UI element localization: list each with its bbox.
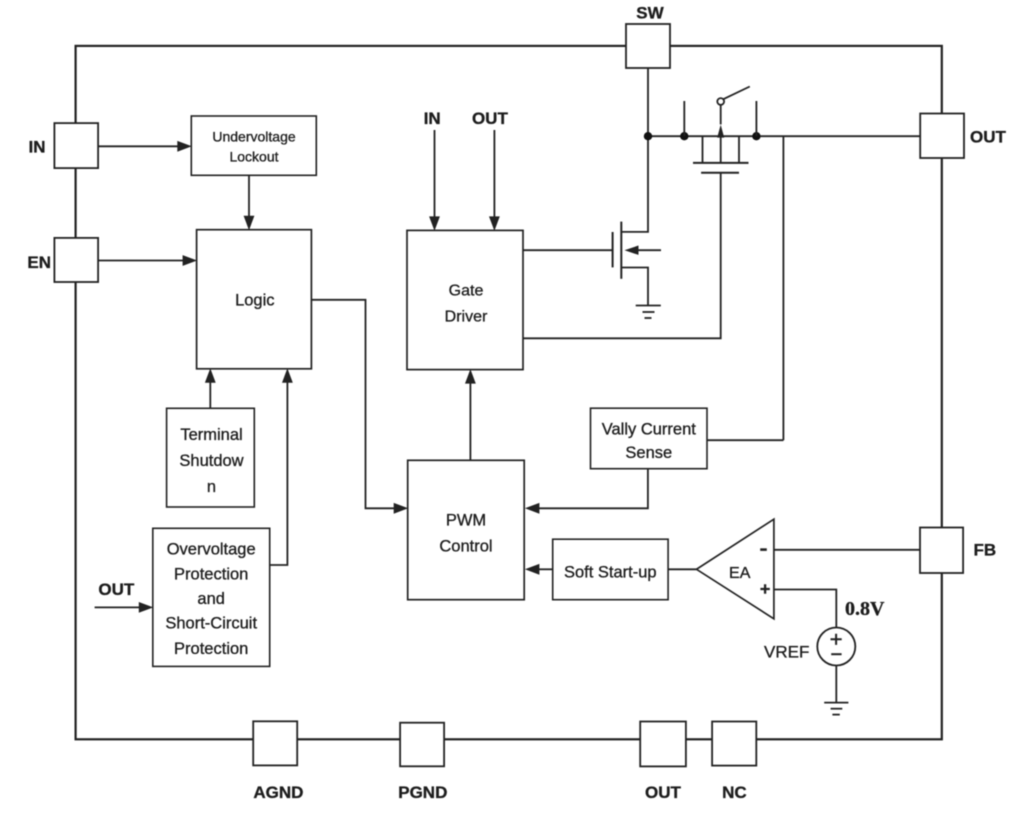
pin OUT top-right — [920, 114, 964, 159]
wire PWM Control to Gate Driver — [469, 382, 471, 460]
pin IN — [54, 123, 98, 168]
wire IN into Gate Driver — [434, 130, 436, 218]
transistor Q1 channel bar — [620, 222, 622, 279]
transistor Q2 right terminal — [738, 136, 740, 163]
arrowhead into Logic left — [183, 255, 198, 266]
svg-text:Control: Control — [439, 537, 492, 555]
pin EN — [54, 238, 98, 282]
svg-text:Shutdow: Shutdow — [179, 452, 243, 470]
block Soft Start-up — [553, 539, 668, 600]
wire FB to EA inverting input — [774, 549, 920, 551]
junction dot SW node — [644, 132, 652, 140]
junction dot right of high-side MOSFET — [752, 132, 760, 140]
svg-text:Lockout: Lockout — [229, 148, 278, 164]
svg-text:and: and — [197, 590, 225, 608]
svg-text:Short-Circuit: Short-Circuit — [165, 615, 257, 633]
block PWM Control — [408, 460, 525, 599]
svg-text:Sense: Sense — [625, 444, 672, 462]
pin OUT bottom — [640, 722, 686, 767]
svg-text:Logic: Logic — [235, 292, 274, 310]
wire OUT into Overvoltage Protection — [95, 606, 140, 608]
svg-text:OUT: OUT — [645, 783, 682, 802]
arrowhead into Logic bottom from Overvoltage Protection — [282, 368, 293, 383]
arrowhead into Logic top — [244, 216, 255, 231]
svg-text:Gate: Gate — [449, 283, 484, 300]
svg-text:Protection: Protection — [174, 640, 248, 658]
transistor Q1 body arrow — [637, 249, 661, 251]
wire Vally Current Sense to PWM Control — [539, 469, 648, 509]
svg-text:FB: FB — [974, 541, 997, 560]
arrowhead into Logic bottom from Terminal Shutdown — [205, 368, 216, 383]
arrowhead OUT into Gate Driver top — [489, 216, 500, 231]
svg-text:0.8V: 0.8V — [845, 598, 885, 620]
wire OUT into Gate Driver — [493, 130, 495, 218]
pin AGND — [253, 721, 297, 765]
op-amp EA — [697, 519, 774, 619]
transistor Q1 source wire — [621, 268, 648, 306]
wire Undervoltage Lockout to Logic — [248, 175, 250, 217]
arrowhead into Undervoltage Lockout — [177, 141, 192, 152]
svg-text:Overvoltage: Overvoltage — [167, 540, 256, 558]
svg-text:n: n — [207, 478, 216, 496]
svg-text:AGND: AGND — [253, 783, 303, 802]
pin SW — [626, 24, 670, 68]
voltage source VREF — [817, 628, 855, 666]
transistor Q2 gate plate — [701, 172, 739, 174]
transistor Q2 left terminal — [702, 136, 704, 163]
svg-text:Vally Current: Vally Current — [602, 420, 697, 438]
op-amp EA minus sign — [760, 548, 767, 551]
svg-text:NC: NC — [722, 783, 747, 802]
svg-text:Protection: Protection — [174, 565, 248, 583]
block Vally Current Sense — [591, 408, 708, 469]
wire Overvoltage Protection to Logic — [270, 381, 288, 565]
wire Soft Start-up to PWM Control — [539, 568, 553, 570]
op-amp EA plus sign — [760, 584, 769, 593]
pin FB — [920, 528, 963, 574]
VREF minus sign — [831, 653, 841, 655]
arrowhead into PWM Control right from Vally Current Sense — [525, 503, 540, 514]
wire feedback drop from output node — [782, 136, 784, 440]
block Terminal Shutdown — [167, 408, 255, 507]
switch lever — [723, 87, 750, 100]
block Gate Driver — [407, 230, 523, 369]
svg-text:IN: IN — [29, 138, 46, 157]
junction dot left of high-side MOSFET — [680, 132, 688, 140]
wire Terminal Shutdown to Logic — [209, 381, 211, 408]
svg-text:OUT: OUT — [970, 128, 1007, 147]
svg-text:Soft Start-up: Soft Start-up — [564, 563, 657, 581]
transistor Q1 low-side NMOS gate bar — [612, 232, 614, 267]
wire Gate Driver to low-side MOSFET gate — [523, 249, 613, 251]
switch circle — [717, 98, 724, 105]
wire VREF to EA non-inverting input — [774, 590, 836, 628]
svg-text:EN: EN — [27, 253, 51, 272]
arrowhead into Overvoltage Protection — [139, 602, 154, 613]
svg-text:VREF: VREF — [764, 643, 809, 662]
pin PGND — [400, 723, 444, 767]
wire IN to Undervoltage Lockout — [98, 145, 178, 147]
svg-text:EA: EA — [729, 565, 751, 582]
wire EN to Logic — [98, 260, 183, 262]
transistor Q2 high-side MOSFET top plate — [693, 162, 749, 164]
svg-text:IN: IN — [424, 109, 441, 128]
stub above right dot — [755, 101, 757, 136]
svg-text:PWM: PWM — [446, 512, 486, 530]
svg-text:Undervoltage: Undervoltage — [212, 129, 295, 145]
svg-text:OUT: OUT — [98, 580, 135, 599]
arrowhead into PWM Control left — [394, 503, 409, 514]
svg-text:PGND: PGND — [398, 783, 447, 802]
transistor Q1 drain wire — [621, 136, 648, 232]
svg-text:OUT: OUT — [472, 109, 509, 128]
arrowhead into PWM Control right from Soft Start-up — [525, 564, 540, 575]
wire VREF to ground — [835, 666, 837, 703]
wire Logic to PWM Control — [311, 300, 394, 509]
block Overvoltage Protection and Short-Circuit Protection — [153, 528, 270, 666]
wire EA apex to Soft Start-up — [668, 568, 696, 570]
wire SW pin down to node — [647, 68, 649, 136]
block Undervoltage Lockout — [191, 116, 316, 175]
svg-text:Driver: Driver — [445, 308, 488, 325]
wire switching node to OUT pin — [648, 135, 920, 137]
arrowhead IN into Gate Driver top — [429, 216, 440, 231]
wire Gate Driver to high-side MOSFET gate — [523, 173, 721, 339]
block Logic — [197, 230, 312, 369]
chip boundary — [76, 46, 942, 739]
ground below Q1 — [636, 305, 661, 307]
VREF plus sign — [831, 634, 842, 645]
svg-text:Terminal: Terminal — [180, 426, 242, 444]
high-side MOSFET body wire with up arrow — [720, 105, 722, 124]
svg-text:SW: SW — [636, 4, 664, 23]
pin NC — [712, 722, 756, 766]
wire Vally Current Sense right to feedback drop — [707, 439, 783, 441]
arrowhead into Gate Driver bottom — [465, 369, 476, 384]
ground below VREF — [824, 702, 848, 704]
stub above left dot — [683, 101, 685, 136]
